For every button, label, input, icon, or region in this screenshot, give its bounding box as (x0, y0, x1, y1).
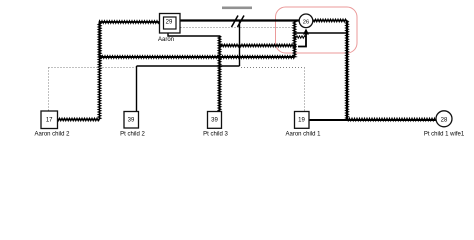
svg-text:39: 39 (211, 118, 218, 124)
person Aaron child 1 (square 19) (295, 112, 310, 129)
wire zigzag to Aaron child 2 (58, 118, 100, 121)
svg-text:Aaron: Aaron (158, 37, 174, 43)
wire zigzag vertical x295 (293, 21, 296, 58)
person Pt child 2 (square 39) (124, 112, 139, 129)
wire solid horizontal y33 (296, 32, 348, 34)
svg-text:Aaron child 1: Aaron child 1 (285, 132, 321, 138)
svg-text:Pt child 1 wife1: Pt child 1 wife1 (424, 132, 465, 138)
wire zigzag vertical x347 (346, 21, 349, 120)
wire zigzag Aaron-left horizontal y22 (99, 21, 160, 24)
wire dotted line from Aaron right (181, 27, 294, 29)
wire zigzag horizontal y46 (220, 44, 297, 47)
wire zigzag vertical x100 upper overlay (99, 22, 101, 70)
wire zigzag vertical x219 to Pt child 3 (218, 36, 221, 112)
wire dotted drop to Aaron child 2 (48, 68, 50, 112)
svg-text:28: 28 (441, 118, 448, 124)
wire marriage line Aaron child 1 - wife (310, 119, 437, 121)
svg-text:29: 29 (166, 20, 173, 26)
svg-text:Aaron child 2: Aaron child 2 (34, 132, 70, 138)
svg-text:17: 17 (46, 118, 53, 124)
svg-text:39: 39 (128, 118, 135, 124)
wire stub below Aaron (168, 33, 220, 36)
wire dotted drop to Aaron child 1 (304, 68, 306, 112)
person Pt child 1 wife1 (circle 28) (436, 111, 452, 127)
wire zigzag to Pt child 1 wife1 (347, 118, 435, 121)
person Aaron (square 29, double border) (160, 14, 181, 34)
wire descender from marriage to sibship (239, 22, 241, 67)
wire drop to Pt child 2 (136, 66, 138, 112)
toolbar gray bar (222, 7, 252, 10)
person 26 (circle) (299, 14, 313, 28)
svg-text:Pt child 2: Pt child 2 (120, 132, 145, 138)
wire zigzag right of 26 (313, 19, 347, 22)
wire short zigzag y37 under 26 (295, 36, 306, 38)
wire marriage line Aaron-26 (180, 19, 300, 21)
divorce slash 2 (238, 16, 245, 28)
wire zigzag vertical x100 (98, 22, 101, 120)
svg-text:19: 19 (298, 118, 305, 124)
divorce slash 1 (232, 16, 239, 28)
wire dotted sibship left (49, 67, 137, 69)
wire sibship bar (137, 65, 240, 67)
person Pt child 3 (square 39) (208, 112, 222, 129)
wire zigzag horizontal y57 (100, 56, 295, 59)
highlight box around person 26 (276, 7, 358, 53)
svg-text:Pt child 3: Pt child 3 (203, 132, 228, 138)
svg-text:26: 26 (303, 20, 309, 26)
person Aaron child 2 (square 17) (41, 111, 58, 129)
wire elbow to arrow below 26 (298, 31, 306, 47)
arrowhead pointing at 26 (303, 29, 309, 35)
wire dotted sibship right (241, 67, 305, 69)
